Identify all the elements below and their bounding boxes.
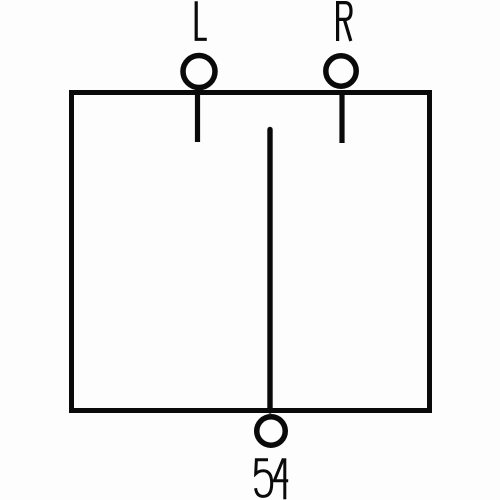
- terminal L circle: [183, 56, 215, 88]
- label R: [336, 3, 351, 41]
- label L: [196, 1, 207, 39]
- label 54: digit 4: [274, 458, 288, 499]
- wire: center conductor to terminal 54: [267, 130, 272, 412]
- label 54: digit 5: [256, 460, 272, 497]
- wire: stub from terminal L into box: [195, 93, 200, 142]
- component box (switch body outline): [72, 93, 430, 411]
- terminal 54 circle: [257, 417, 286, 446]
- terminal R circle: [326, 56, 356, 86]
- wire: stub from terminal R into box: [339, 93, 344, 143]
